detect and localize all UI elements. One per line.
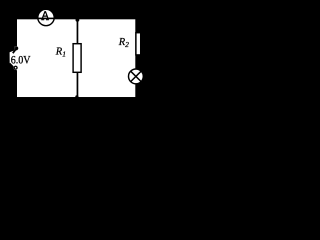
ammeter A1 body bbox=[38, 9, 54, 25]
battery white bulge around 6.0V label bbox=[10, 50, 17, 71]
wire (top, passes behind ammeter) bbox=[16, 18, 136, 20]
resistor R1 bbox=[73, 44, 81, 73]
node (junction dot top) bbox=[76, 18, 80, 22]
wire (middle branch, top lead) bbox=[77, 19, 79, 43]
background (transparent area rendered black) bbox=[0, 0, 150, 102]
wire (middle branch, bottom lead) bbox=[77, 73, 79, 98]
ammeter label A bbox=[41, 11, 49, 20]
circuit interior (white region bounded by loop wires) bbox=[17, 19, 135, 97]
lamp X mark bbox=[131, 71, 141, 81]
battery plate (upper slash) bbox=[13, 47, 18, 53]
battery bottom terminal dot bbox=[13, 66, 17, 70]
lamp L1 body bbox=[129, 69, 144, 84]
svg-text:6.0V: 6.0V bbox=[11, 52, 31, 66]
battery top terminal dot bbox=[14, 46, 18, 50]
node (junction dot bottom) bbox=[75, 95, 78, 98]
wire (bottom) bbox=[16, 97, 136, 98]
battery plate (lower slash) bbox=[10, 63, 15, 68]
resistor R2 bbox=[136, 33, 141, 55]
